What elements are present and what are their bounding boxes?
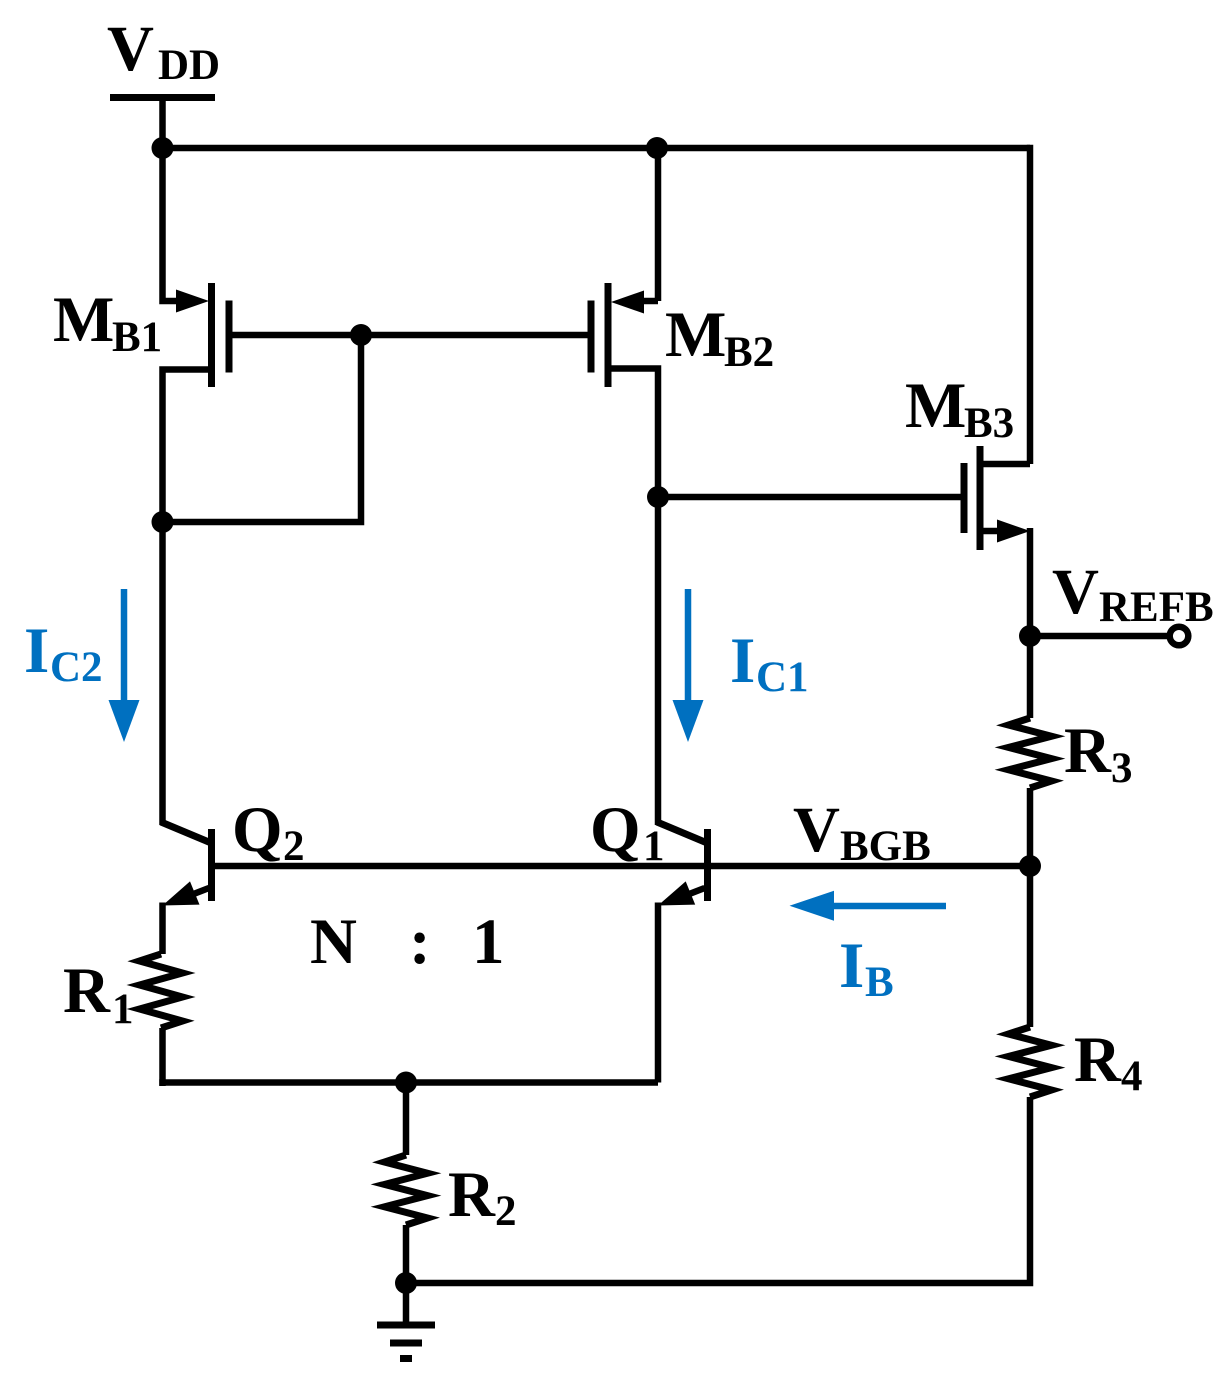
current arrow IC1 xyxy=(673,589,704,742)
svg-text:R: R xyxy=(1074,1024,1122,1096)
node MB1 drain-gate xyxy=(152,511,174,533)
resistor R3 xyxy=(1009,718,1052,788)
wire base bus Q2-Q1-VBGB xyxy=(212,863,1031,870)
wire R2 top lead xyxy=(403,1083,410,1156)
wire MB3 drain xyxy=(983,528,998,535)
svg-text:2: 2 xyxy=(495,1188,517,1235)
svg-text:B2: B2 xyxy=(724,329,774,376)
svg-text:I: I xyxy=(730,625,755,697)
wire ground stem xyxy=(403,1283,410,1324)
svg-text:DD: DD xyxy=(158,42,220,89)
svg-text:REFB: REFB xyxy=(1099,584,1214,631)
svg-text:M: M xyxy=(53,284,114,356)
wire MB1 drain xyxy=(163,370,209,826)
ground xyxy=(377,1325,435,1359)
resistor R1 xyxy=(140,954,183,1028)
wire R4 to bottom rail xyxy=(406,1097,1030,1283)
VDD supply bar xyxy=(110,94,215,101)
svg-text:R: R xyxy=(448,1159,496,1231)
svg-text:B3: B3 xyxy=(964,400,1014,447)
wire top rail xyxy=(163,145,1031,152)
wire R1 to bottom-left rail xyxy=(159,1028,166,1086)
svg-text::: : xyxy=(409,906,431,978)
svg-text:1: 1 xyxy=(112,986,134,1033)
transistor MB2 xyxy=(591,283,658,387)
node VBGB xyxy=(1019,855,1041,877)
wire MB1 source xyxy=(163,148,178,301)
wire Q2 emitter stem xyxy=(159,903,166,955)
svg-text:C2: C2 xyxy=(50,644,103,691)
svg-text:R: R xyxy=(1064,715,1112,787)
wire VREFB terminal lead xyxy=(1030,633,1168,640)
svg-text:M: M xyxy=(905,370,966,442)
wire gate node to MB1 drain xyxy=(163,335,362,522)
svg-text:4: 4 xyxy=(1121,1053,1143,1100)
node VREFB xyxy=(1019,625,1041,647)
svg-text:BGB: BGB xyxy=(840,823,931,870)
svg-text:1: 1 xyxy=(643,823,665,870)
terminal VREFB open circle xyxy=(1170,627,1189,646)
svg-text:V: V xyxy=(793,794,840,866)
node ground rail xyxy=(395,1272,417,1294)
svg-text:I: I xyxy=(839,930,864,1002)
wire MB2 source stem xyxy=(655,148,662,301)
wire gate bus MB1-MB2 xyxy=(229,332,591,339)
transistor Q2 xyxy=(161,822,212,906)
resistor R2 xyxy=(385,1155,428,1225)
wire VREFB node to R3 xyxy=(1027,636,1034,718)
transistor MB1 xyxy=(176,283,229,387)
current arrow IC2 xyxy=(109,589,140,742)
wire MB3 drain to VREFB node xyxy=(1027,528,1034,640)
transistor Q1 xyxy=(657,822,708,906)
svg-text:2: 2 xyxy=(283,823,305,870)
svg-text:1: 1 xyxy=(472,906,505,978)
svg-text:M: M xyxy=(665,299,726,371)
current arrow IB xyxy=(790,891,947,921)
svg-text:B: B xyxy=(865,959,894,1006)
node MB2 drain xyxy=(647,486,669,508)
svg-text:C1: C1 xyxy=(756,654,809,701)
node gate bus junction xyxy=(350,324,372,346)
svg-text:B1: B1 xyxy=(112,314,162,361)
wire MB3 source xyxy=(980,461,1030,468)
wire R2 bottom lead xyxy=(403,1225,410,1283)
wire VDD stem xyxy=(159,98,166,149)
transistor MB3 xyxy=(964,446,1030,550)
svg-text:N: N xyxy=(310,906,357,978)
wire bottom-left rail xyxy=(159,1079,658,1086)
svg-text:I: I xyxy=(24,615,49,687)
node VDD rail MB2 tap xyxy=(646,137,668,159)
svg-text:V: V xyxy=(1052,556,1099,628)
svg-text:Q: Q xyxy=(590,794,641,866)
wire Q1 emitter stem xyxy=(655,903,662,1083)
wire MB2 drain xyxy=(611,369,658,826)
svg-text:R: R xyxy=(63,955,111,1027)
wire right rail xyxy=(1027,148,1030,464)
svg-text:3: 3 xyxy=(1111,745,1133,792)
node VDD rail left xyxy=(152,137,174,159)
resistor R4 xyxy=(1009,1027,1052,1097)
svg-text:Q: Q xyxy=(232,794,283,866)
wire VBGB node to R4 xyxy=(1027,866,1034,1027)
wire MB3 gate xyxy=(658,494,961,501)
node R2 top xyxy=(395,1072,417,1094)
wire R3 to VBGB node xyxy=(1027,788,1034,866)
svg-text:V: V xyxy=(107,13,154,85)
